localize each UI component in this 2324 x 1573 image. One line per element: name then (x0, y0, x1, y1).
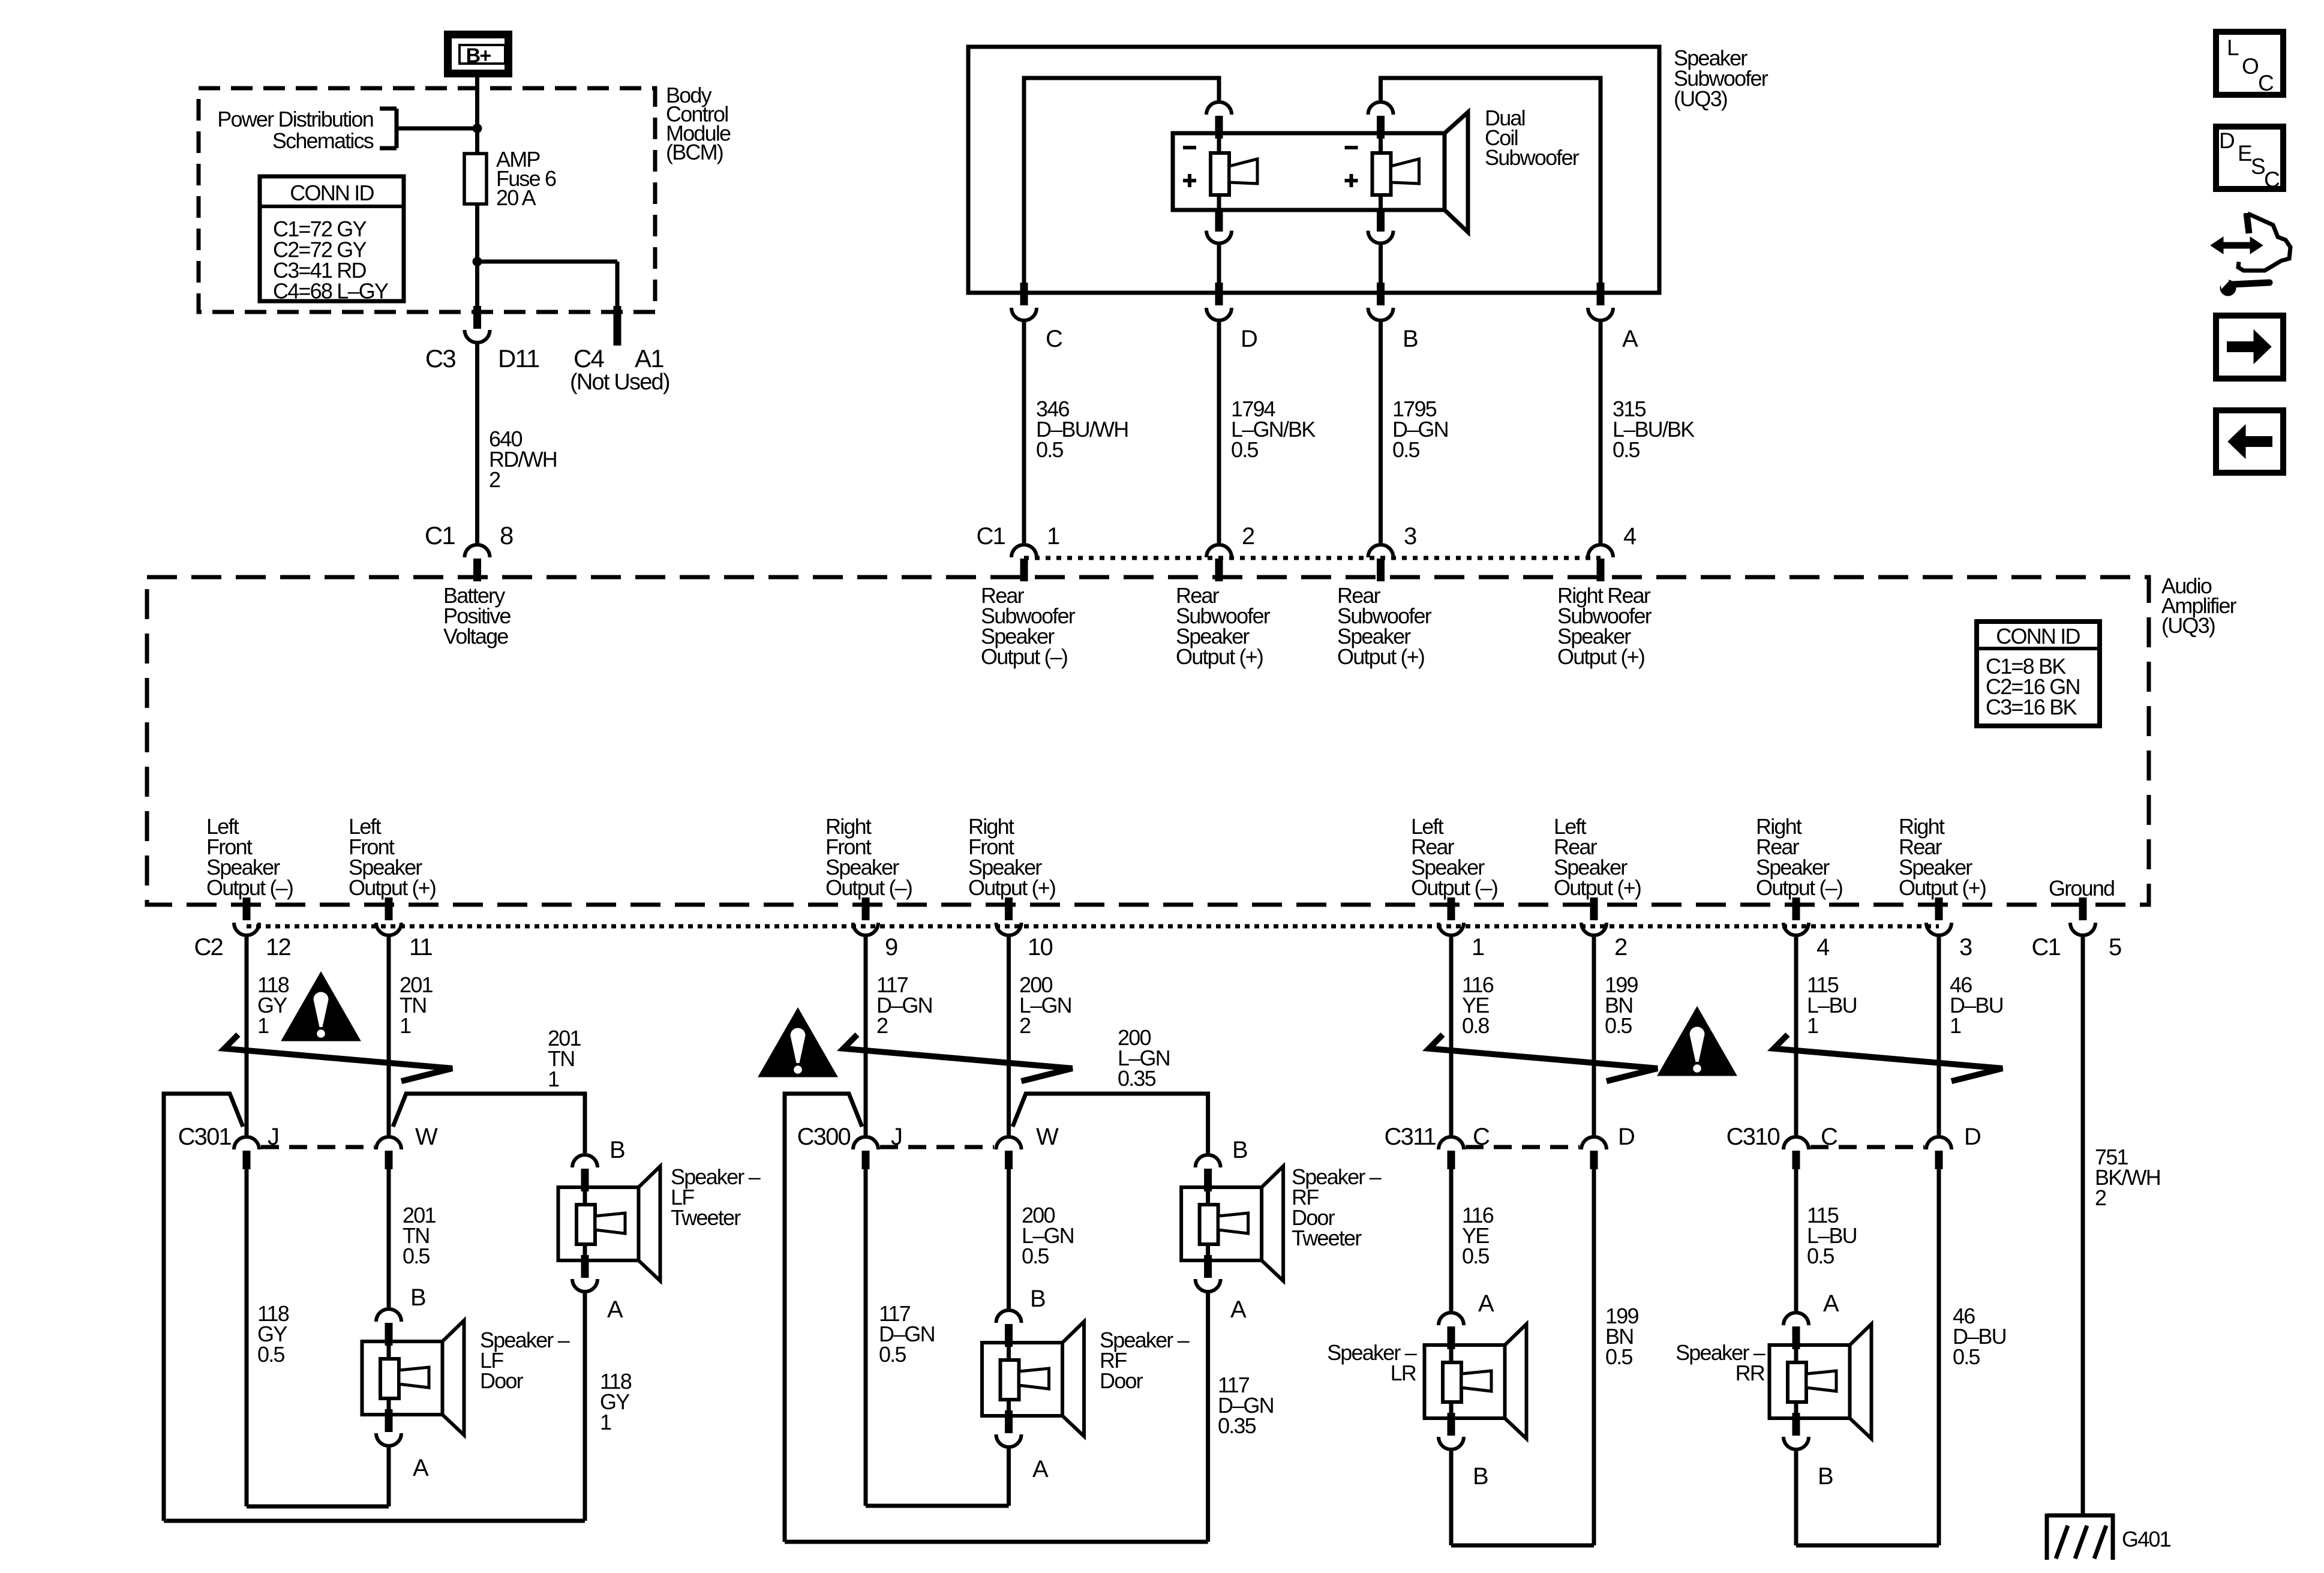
svg-text:Door: Door (1100, 1368, 1143, 1393)
svg-text:B: B (1030, 1286, 1045, 1312)
svg-text:A: A (607, 1296, 623, 1323)
svg-text:D: D (1964, 1124, 1980, 1150)
svg-text:2: 2 (1614, 934, 1627, 960)
svg-text:1: 1 (1047, 523, 1059, 550)
svg-text:0.5: 0.5 (1462, 1244, 1489, 1268)
svg-text:Output (+): Output (+) (1554, 875, 1641, 900)
svg-text:Output (–): Output (–) (206, 875, 293, 900)
svg-text:W: W (415, 1124, 438, 1150)
svg-text:0.5: 0.5 (1036, 437, 1063, 462)
svg-text:0.8: 0.8 (1462, 1013, 1489, 1038)
svg-text:12: 12 (266, 934, 290, 960)
svg-text:1: 1 (548, 1067, 559, 1091)
svg-text:Subwoofer: Subwoofer (1485, 145, 1580, 170)
svg-text:A: A (1478, 1290, 1494, 1317)
svg-text:B: B (1818, 1463, 1833, 1490)
svg-text:1: 1 (600, 1410, 611, 1434)
svg-text:LR: LR (1391, 1361, 1416, 1385)
svg-text:C4=68 L–GY: C4=68 L–GY (273, 279, 389, 304)
svg-text:Output (–): Output (–) (981, 644, 1067, 669)
svg-text:Output (+): Output (+) (1337, 644, 1424, 669)
svg-text:Schematics: Schematics (272, 128, 374, 153)
svg-text:0.5: 0.5 (257, 1342, 284, 1367)
svg-text:C: C (1473, 1124, 1490, 1150)
svg-text:0.5: 0.5 (1807, 1244, 1834, 1268)
svg-text:11: 11 (409, 934, 432, 960)
svg-text:Output (–): Output (–) (1756, 875, 1842, 900)
svg-text:B+: B+ (466, 44, 491, 67)
svg-text:C: C (1046, 326, 1062, 352)
svg-text:J: J (891, 1124, 902, 1150)
svg-text:D: D (1241, 326, 1257, 352)
svg-text:0.5: 0.5 (1022, 1244, 1049, 1268)
svg-text:A: A (413, 1455, 429, 1481)
svg-text:C: C (1821, 1124, 1837, 1150)
svg-text:1: 1 (1472, 934, 1484, 960)
svg-text:Voltage: Voltage (443, 624, 508, 649)
svg-text:C1: C1 (2031, 934, 2060, 960)
svg-text:A: A (1823, 1290, 1839, 1317)
svg-text:A1: A1 (635, 344, 663, 373)
svg-text:0.35: 0.35 (1218, 1413, 1256, 1438)
svg-text:D: D (2219, 128, 2234, 153)
svg-text:C3=16 BK: C3=16 BK (1986, 695, 2077, 719)
svg-text:Power Distribution: Power Distribution (217, 107, 373, 131)
svg-text:L: L (2227, 35, 2239, 60)
svg-text:B: B (609, 1137, 624, 1163)
svg-text:0.5: 0.5 (1605, 1344, 1632, 1369)
svg-text:0.5: 0.5 (1392, 437, 1419, 462)
svg-text:0.5: 0.5 (1231, 437, 1258, 462)
svg-text:0.5: 0.5 (403, 1244, 430, 1268)
svg-text:Output (+): Output (+) (349, 875, 436, 900)
svg-text:9: 9 (885, 934, 897, 960)
svg-text:0.5: 0.5 (1613, 437, 1640, 462)
svg-text:Tweeter: Tweeter (671, 1205, 741, 1230)
svg-text:G401: G401 (2122, 1527, 2171, 1551)
svg-text:C1: C1 (425, 521, 455, 550)
svg-text:8: 8 (500, 521, 513, 550)
svg-text:D: D (1618, 1124, 1634, 1150)
svg-text:10: 10 (1028, 934, 1052, 960)
svg-text:3: 3 (1404, 523, 1416, 550)
svg-text:C: C (2258, 71, 2274, 95)
svg-text:Output (+): Output (+) (1899, 875, 1986, 900)
svg-text:Door: Door (480, 1368, 524, 1393)
svg-text:C301: C301 (178, 1124, 232, 1150)
svg-text:Ground: Ground (2049, 876, 2114, 900)
svg-text:S: S (2251, 154, 2265, 179)
svg-text:2: 2 (2095, 1185, 2106, 1210)
svg-text:W: W (1036, 1124, 1059, 1150)
svg-text:0.35: 0.35 (1118, 1066, 1156, 1091)
svg-text:Output (+): Output (+) (1176, 644, 1263, 669)
svg-text:C4: C4 (574, 344, 605, 373)
svg-text:3: 3 (1959, 934, 1972, 960)
svg-text:J: J (268, 1124, 278, 1150)
svg-text:Output (–): Output (–) (825, 875, 912, 900)
svg-text:C2: C2 (194, 934, 223, 960)
svg-text:A: A (1032, 1456, 1049, 1482)
svg-text:Tweeter: Tweeter (1292, 1226, 1362, 1250)
svg-text:4: 4 (1816, 934, 1830, 960)
svg-text:C3: C3 (425, 344, 456, 373)
svg-text:(UQ3): (UQ3) (2161, 613, 2215, 638)
svg-text:2: 2 (489, 467, 500, 492)
svg-text:1: 1 (400, 1013, 411, 1038)
svg-text:Output (+): Output (+) (968, 875, 1055, 900)
svg-text:5: 5 (2109, 934, 2121, 960)
svg-text:(UQ3): (UQ3) (1674, 86, 1727, 111)
svg-text:1: 1 (1950, 1013, 1961, 1038)
svg-text:A: A (1230, 1296, 1247, 1323)
svg-text:(Not Used): (Not Used) (570, 370, 669, 395)
svg-text:2: 2 (876, 1013, 888, 1038)
svg-text:0.5: 0.5 (1953, 1344, 1980, 1369)
svg-text:CONN ID: CONN ID (290, 181, 374, 205)
svg-text:RR: RR (1736, 1361, 1765, 1385)
svg-text:B: B (1473, 1463, 1488, 1490)
svg-text:4: 4 (1623, 523, 1637, 550)
svg-text:B: B (1232, 1137, 1247, 1163)
svg-text:CONN ID: CONN ID (1996, 624, 2080, 649)
svg-text:C1: C1 (976, 523, 1005, 550)
svg-text:(BCM): (BCM) (666, 140, 723, 164)
svg-text:B: B (410, 1284, 425, 1311)
svg-text:C311: C311 (1385, 1124, 1436, 1150)
svg-text:20 A: 20 A (496, 185, 536, 210)
svg-text:C: C (2264, 167, 2280, 192)
svg-text:1: 1 (1807, 1013, 1818, 1038)
svg-text:1: 1 (257, 1013, 269, 1038)
svg-text:E: E (2238, 141, 2252, 166)
svg-text:2: 2 (1242, 523, 1254, 550)
svg-text:C310: C310 (1727, 1124, 1780, 1150)
svg-text:O: O (2242, 54, 2259, 79)
svg-text:0.5: 0.5 (1605, 1013, 1632, 1038)
svg-text:Output (–): Output (–) (1411, 875, 1497, 900)
svg-text:C300: C300 (797, 1124, 851, 1150)
svg-text:0.5: 0.5 (879, 1342, 906, 1367)
svg-text:B: B (1403, 326, 1418, 352)
svg-text:2: 2 (1019, 1013, 1031, 1038)
svg-text:Output (+): Output (+) (1557, 644, 1644, 669)
svg-text:A: A (1622, 326, 1638, 352)
svg-text:D11: D11 (498, 344, 539, 373)
